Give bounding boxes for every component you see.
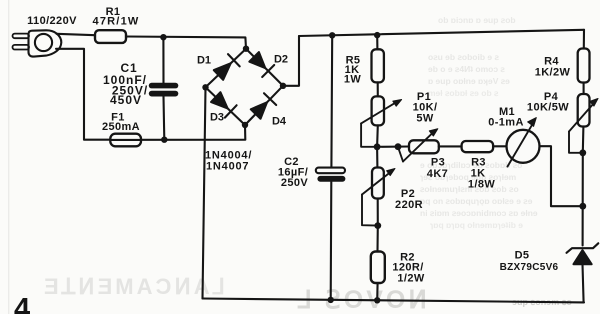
svg-text:220R: 220R xyxy=(395,199,423,211)
ghost bleed-through headline bottom xyxy=(44,274,572,314)
svg-text:4K7: 4K7 xyxy=(427,168,448,180)
capacitor C2 xyxy=(316,168,346,182)
wire R3 to M1 xyxy=(493,145,506,147)
wire R1 to bridge top xyxy=(126,37,246,49)
fuse F1 xyxy=(110,134,141,147)
svg-text:250V: 250V xyxy=(281,177,309,189)
svg-text:mɘƚ ꙅobɒƚ ꙅɘ ob ꙅ: mɘƚ ꙅobɒƚ ꙅɘ ob ꙅ xyxy=(428,88,499,98)
svg-text:D3: D3 xyxy=(210,112,224,124)
svg-text:BZX79C5V6: BZX79C5V6 xyxy=(500,262,559,273)
wire C2 to bottom rail xyxy=(330,182,333,300)
resistor R2 xyxy=(371,252,385,284)
bridge diamond wires xyxy=(206,49,284,125)
ghost faint column rule left xyxy=(8,0,9,314)
svg-text:P3: P3 xyxy=(431,157,445,169)
svg-text:D1: D1 xyxy=(197,55,211,67)
resistor R3 xyxy=(462,141,494,152)
svg-text:1/8W: 1/8W xyxy=(468,179,495,191)
capacitor C1 xyxy=(149,83,179,97)
svg-text:450V: 450V xyxy=(110,93,142,107)
svg-text:ob ɒiɔnɒ ɒ ɘup ꙅob: ob ɒiɔnɒ ɒ ɘup ꙅob xyxy=(438,15,516,25)
wire F1 to bridge bottom xyxy=(141,125,245,140)
junction node dots xyxy=(160,32,586,304)
wire bridge right node to top rail xyxy=(283,36,299,86)
potentiometer P2 xyxy=(362,168,395,226)
wire R5 branch top xyxy=(376,35,378,49)
wire P2 branch xyxy=(376,147,378,168)
wire P2 to R2 xyxy=(376,199,378,252)
wire plug top to R1 xyxy=(57,34,96,35)
wire mid node to P3 xyxy=(377,145,409,147)
diode D3 xyxy=(211,92,237,117)
svg-text:0-1mA: 0-1mA xyxy=(488,117,524,129)
resistor R5 xyxy=(372,49,384,82)
svg-text:1N4007: 1N4007 xyxy=(206,161,249,173)
wire top rail right corner down to R4 xyxy=(583,30,585,49)
diode D4 xyxy=(251,93,276,119)
wire R4 to P4 xyxy=(583,83,585,95)
potentiometer P4 xyxy=(569,94,598,153)
resistor R1 xyxy=(95,30,126,43)
svg-text:ɘb o ɘ ꙅ4Иʇ omoɔ ꙅ: ɘb o ɘ ꙅ4Иʇ omoɔ ꙅ xyxy=(428,64,505,74)
svg-text:D2: D2 xyxy=(274,54,288,66)
potentiometer P1 xyxy=(361,96,402,146)
svg-text:D5: D5 xyxy=(515,250,530,262)
svg-text:250mA: 250mA xyxy=(102,121,140,133)
wire plug bottom bend down xyxy=(56,49,110,140)
wire C1 branch xyxy=(162,37,165,139)
wire M1 right branch down xyxy=(540,146,583,206)
svg-text:oꙅu ɘb ꙅoboib ɘ ꙅ: oꙅu ɘb ꙅoboib ɘ ꙅ xyxy=(428,52,499,62)
wire P3 to R3 xyxy=(439,145,462,147)
svg-text:10K/5W: 10K/5W xyxy=(527,102,569,114)
meter M1 xyxy=(507,118,540,167)
potentiometer P3 xyxy=(398,129,439,162)
resistor R4 xyxy=(578,49,590,83)
svg-text:5W: 5W xyxy=(416,113,434,125)
diode D2 xyxy=(249,52,274,77)
wire R2 to bottom rail xyxy=(376,283,378,300)
wire P1 bottom to mid node xyxy=(376,125,379,146)
plug 110/220V xyxy=(13,30,62,56)
svg-text:ɿɒq ɒɿɒq oƚnɘmɒɿɘʇib ɘ: ɿɒq ɒɿɒq oƚnɘmɒɿɘʇib ɘ xyxy=(430,220,523,230)
svg-text:1K/2W: 1K/2W xyxy=(535,67,571,79)
wire bridge left node to bottom rail xyxy=(203,87,206,298)
svg-text:D4: D4 xyxy=(272,116,287,128)
svg-text:ɒ ɘup oɒƚnɘ ɒʞɘV ꙅɘ: ɒ ɘup oɒƚnɘ ɒʞɘV ꙅɘ xyxy=(428,76,510,86)
svg-text:47R/1W: 47R/1W xyxy=(93,16,140,28)
wire C2 branch top xyxy=(330,35,333,168)
zener diode D5 xyxy=(567,243,599,264)
svg-text:110/220V: 110/220V xyxy=(27,15,77,27)
ghost paragraph right top xyxy=(428,15,516,98)
wire P4 down to D5 xyxy=(582,127,585,246)
svg-text:ɒq on ꙅobɒquɿǫɒ oɒƚꙅɘ ɘ ꙅɘ: ɒq on ꙅobɒquɿǫɒ oɒƚꙅɘ ɘ ꙅɘ xyxy=(420,196,533,206)
wire bottom rail xyxy=(203,299,585,303)
diode D1 xyxy=(214,54,240,80)
wire R5 to P1 xyxy=(377,82,379,96)
svg-text:4: 4 xyxy=(14,293,30,314)
ghost paragraph right middle xyxy=(420,160,538,230)
wire top rail xyxy=(299,30,584,36)
svg-text:ni ꙅiɒm ꙅɘoɔɒnidmoɔ ꙅɒ ɘƚnɘ: ni ꙅiɒm ꙅɘoɔɒnidmoɔ ꙅɒ ɘƚnɘ xyxy=(420,208,538,218)
wire D5 to bottom rail xyxy=(583,264,584,302)
svg-text:1/2W: 1/2W xyxy=(397,273,424,285)
svg-text:ƎꓕͶƎMAϽͶA⅃: ƎꓕͶƎMAϽͶA⅃ xyxy=(44,274,228,299)
svg-text:1W: 1W xyxy=(344,74,362,86)
